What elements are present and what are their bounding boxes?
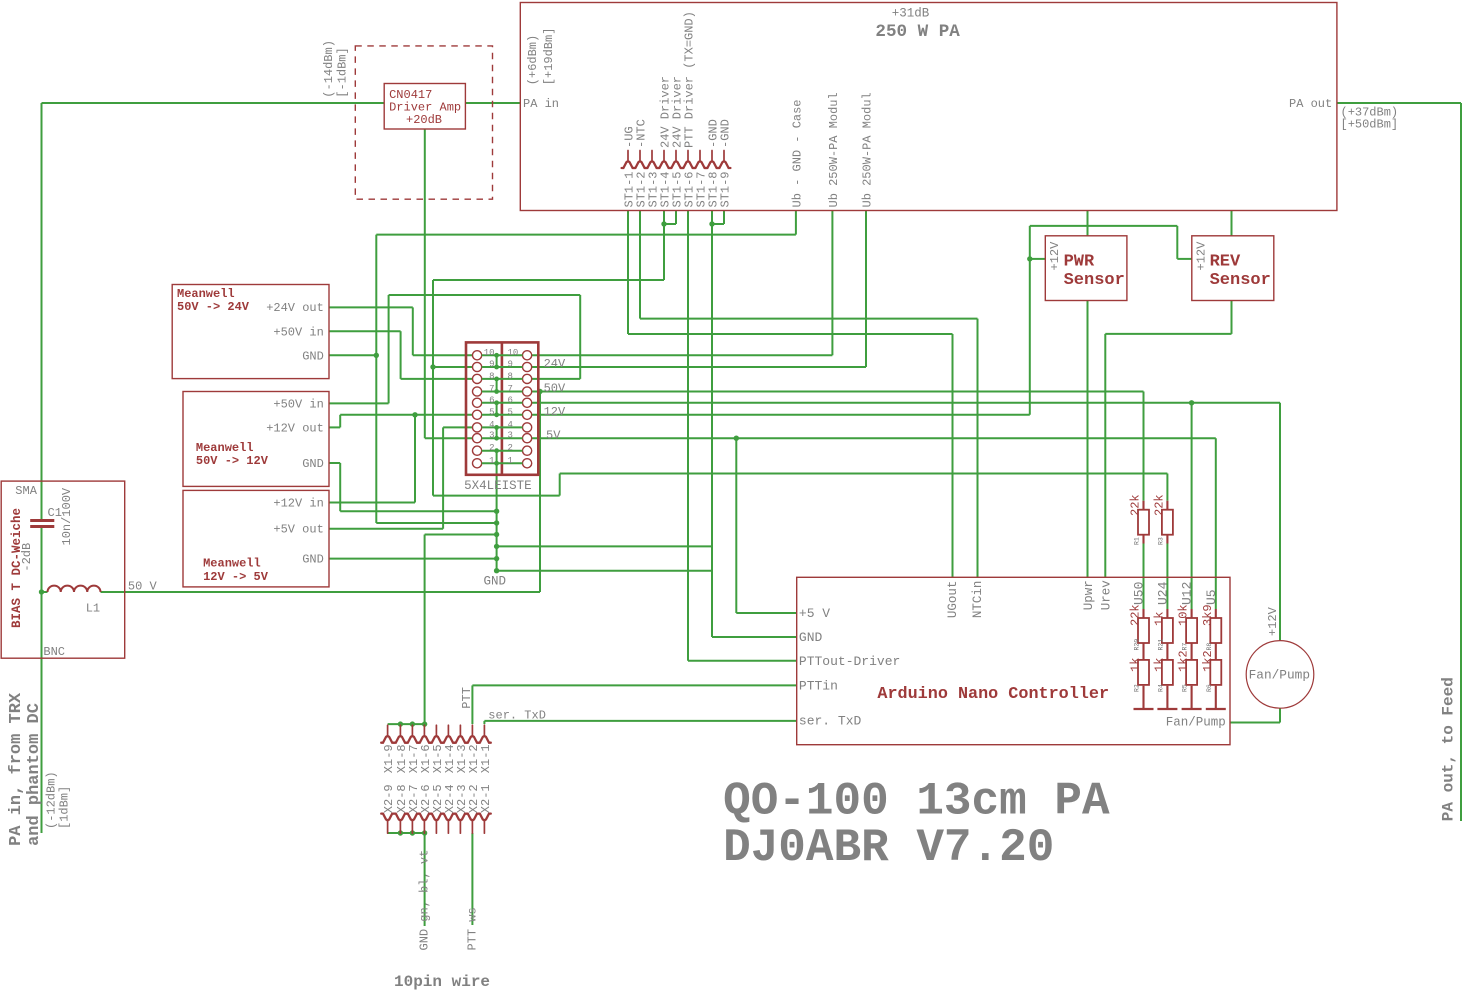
svg-text:[-1dBm]: [-1dBm] xyxy=(336,47,350,97)
svg-text:GND gn, bl, vt: GND gn, bl, vt xyxy=(418,850,432,951)
svg-text:GND: GND xyxy=(799,630,823,645)
svg-text:50V: 50V xyxy=(544,382,566,396)
svg-text:X2-1: X2-1 xyxy=(479,784,493,813)
svg-text:Meanwell: Meanwell xyxy=(177,287,235,301)
svg-text:PTT ws: PTT ws xyxy=(466,907,480,950)
svg-text:PTTout-Driver: PTTout-Driver xyxy=(799,654,900,669)
svg-text:Meanwell: Meanwell xyxy=(203,557,261,571)
svg-text:4: 4 xyxy=(508,420,513,430)
svg-text:1k: 1k xyxy=(1152,612,1166,626)
svg-text:R3: R3 xyxy=(1157,537,1164,545)
svg-text:+31dB: +31dB xyxy=(892,7,930,21)
svg-text:6: 6 xyxy=(508,395,513,405)
svg-text:Fan/Pump: Fan/Pump xyxy=(1166,716,1226,730)
svg-text:and phantom DC: and phantom DC xyxy=(25,703,44,846)
svg-text:50 V: 50 V xyxy=(128,580,158,594)
svg-text:PTTin: PTTin xyxy=(799,679,838,694)
svg-text:[1dBm]: [1dBm] xyxy=(58,786,72,829)
svg-text:3k9: 3k9 xyxy=(1201,604,1215,626)
svg-text:REV: REV xyxy=(1210,252,1241,271)
svg-text:PA in: PA in xyxy=(523,97,559,111)
svg-text:PWR: PWR xyxy=(1064,252,1095,271)
svg-text:R2: R2 xyxy=(1134,684,1141,692)
svg-text:Ub 250W-PA Modul: Ub 250W-PA Modul xyxy=(827,92,841,207)
svg-text:QO-100 13cm PA: QO-100 13cm PA xyxy=(723,776,1110,828)
svg-text:UGout: UGout xyxy=(946,581,960,619)
svg-text:X1-1: X1-1 xyxy=(479,744,493,773)
svg-text:+24V out: +24V out xyxy=(266,301,324,315)
svg-text:12V -> 5V: 12V -> 5V xyxy=(203,570,269,584)
svg-text:GND: GND xyxy=(302,350,324,364)
svg-text:10k: 10k xyxy=(1177,604,1191,626)
svg-text:R8: R8 xyxy=(1206,643,1213,651)
svg-text:ser. TxD: ser. TxD xyxy=(488,708,546,722)
svg-text:Sensor: Sensor xyxy=(1210,271,1271,290)
svg-text:2: 2 xyxy=(489,443,494,453)
svg-text:50V -> 24V: 50V -> 24V xyxy=(177,300,250,314)
svg-text:+5V out: +5V out xyxy=(273,523,323,537)
svg-text:1k: 1k xyxy=(1129,658,1143,672)
svg-text:9: 9 xyxy=(489,360,494,370)
svg-text:6: 6 xyxy=(489,395,494,405)
svg-text:7: 7 xyxy=(508,384,513,394)
svg-text:[+19dBm]: [+19dBm] xyxy=(542,28,556,86)
svg-text:1k2: 1k2 xyxy=(1201,650,1215,672)
svg-text:7: 7 xyxy=(489,384,494,394)
svg-text:SMA: SMA xyxy=(15,484,37,498)
svg-text:Ub - GND - Case: Ub - GND - Case xyxy=(790,99,804,207)
svg-text:(-14dBm): (-14dBm) xyxy=(322,40,336,98)
svg-text:-NTC: -NTC xyxy=(635,119,649,148)
svg-text:22k: 22k xyxy=(1129,494,1143,516)
svg-text:R1: R1 xyxy=(1134,537,1141,545)
svg-text:BNC: BNC xyxy=(43,645,65,659)
svg-text:DJ0ABR V7.20: DJ0ABR V7.20 xyxy=(723,822,1054,874)
svg-text:GND: GND xyxy=(484,575,507,589)
svg-text:U50: U50 xyxy=(1132,582,1147,605)
svg-text:3: 3 xyxy=(508,431,513,441)
svg-text:1: 1 xyxy=(489,456,494,466)
svg-text:Fan/Pump: Fan/Pump xyxy=(1249,668,1310,683)
svg-text:Urev: Urev xyxy=(1100,580,1114,611)
svg-text:+12V: +12V xyxy=(1266,606,1280,636)
svg-text:5X4LEISTE: 5X4LEISTE xyxy=(464,479,532,493)
svg-text:NTCin: NTCin xyxy=(971,581,985,619)
svg-text:1: 1 xyxy=(508,456,513,466)
svg-text:Upwr: Upwr xyxy=(1082,580,1096,610)
svg-text:22k: 22k xyxy=(1152,494,1166,516)
svg-text:9: 9 xyxy=(508,360,513,370)
svg-text:U24: U24 xyxy=(1155,581,1170,605)
svg-text:Meanwell: Meanwell xyxy=(196,441,254,455)
svg-text:8: 8 xyxy=(489,371,494,381)
svg-text:PA out, to Feed: PA out, to Feed xyxy=(1440,677,1458,821)
svg-text:250 W PA: 250 W PA xyxy=(875,22,960,42)
svg-text:[+50dBm]: [+50dBm] xyxy=(1341,118,1399,132)
svg-text:+12V: +12V xyxy=(1195,241,1209,271)
svg-text:10n/100V: 10n/100V xyxy=(60,487,74,545)
svg-text:5: 5 xyxy=(489,407,494,417)
svg-text:4: 4 xyxy=(489,420,494,430)
svg-text:1k: 1k xyxy=(1152,658,1166,672)
svg-text:Ub 250W-PA Modul: Ub 250W-PA Modul xyxy=(861,92,875,207)
svg-text:ser. TxD: ser. TxD xyxy=(799,714,862,729)
svg-text:L1: L1 xyxy=(86,602,100,616)
svg-text:ST1-9: ST1-9 xyxy=(719,171,733,207)
svg-text:22k: 22k xyxy=(1129,604,1143,626)
svg-text:BIAS T DC-Weiche: BIAS T DC-Weiche xyxy=(10,508,24,628)
svg-text:5: 5 xyxy=(508,407,513,417)
svg-text:3: 3 xyxy=(489,431,494,441)
svg-text:+20dB: +20dB xyxy=(406,113,442,127)
svg-text:U5: U5 xyxy=(1204,589,1219,605)
svg-text:10: 10 xyxy=(484,348,495,358)
svg-text:PTT: PTT xyxy=(460,687,474,709)
svg-text:PA out: PA out xyxy=(1289,97,1332,111)
svg-text:50V -> 12V: 50V -> 12V xyxy=(196,454,269,468)
svg-text:U12: U12 xyxy=(1180,582,1195,605)
svg-text:Arduino Nano Controller: Arduino Nano Controller xyxy=(877,685,1109,704)
svg-text:+5 V: +5 V xyxy=(799,606,830,621)
svg-text:(-12dBm): (-12dBm) xyxy=(45,771,59,829)
svg-text:PA in, from TRX: PA in, from TRX xyxy=(7,692,26,846)
svg-text:R4: R4 xyxy=(1157,684,1164,692)
svg-text:5V: 5V xyxy=(546,428,561,442)
svg-text:1k2: 1k2 xyxy=(1177,650,1191,672)
svg-text:+50V in: +50V in xyxy=(273,326,323,340)
svg-text:24V: 24V xyxy=(544,357,566,371)
svg-text:R6: R6 xyxy=(1206,684,1213,692)
svg-text:GND: GND xyxy=(302,553,324,567)
svg-text:12V: 12V xyxy=(544,405,566,419)
svg-text:R21: R21 xyxy=(1157,639,1164,651)
svg-text:+12V in: +12V in xyxy=(273,497,323,511)
svg-text:R20: R20 xyxy=(1134,639,1141,651)
svg-text:(+6dBm): (+6dBm) xyxy=(526,35,540,85)
svg-text:-GND: -GND xyxy=(719,119,733,148)
svg-text:R7: R7 xyxy=(1182,643,1189,651)
svg-text:+50V in: +50V in xyxy=(273,398,323,412)
svg-text:+12V: +12V xyxy=(1048,241,1062,271)
svg-text:PTT Driver (TX=GND): PTT Driver (TX=GND) xyxy=(683,11,697,148)
svg-text:GND: GND xyxy=(302,457,324,471)
svg-text:8: 8 xyxy=(508,371,513,381)
svg-text:10pin wire: 10pin wire xyxy=(394,973,490,991)
svg-text:10: 10 xyxy=(508,348,519,358)
svg-text:+12V out: +12V out xyxy=(266,422,324,436)
svg-text:2: 2 xyxy=(508,443,513,453)
svg-text:R5: R5 xyxy=(1182,684,1189,692)
svg-text:Sensor: Sensor xyxy=(1064,271,1125,290)
